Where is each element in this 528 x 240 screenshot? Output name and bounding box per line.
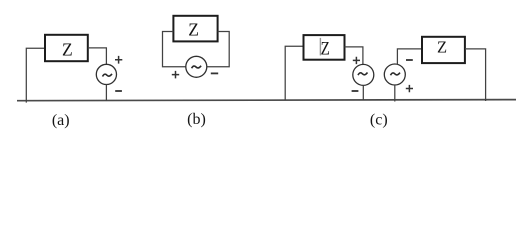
AC source 1 (c) <box>353 64 374 85</box>
sine symbol (c source 2) <box>391 73 401 76</box>
svg-text:(c): (c) <box>370 112 388 129</box>
wire: source 2 (c) to rail <box>394 85 396 102</box>
svg-text:(a): (a) <box>52 112 70 129</box>
minus sign (c source 1) <box>352 90 359 92</box>
svg-text:Z: Z <box>437 38 447 57</box>
minus sign (c source 2) <box>406 59 413 61</box>
wire: box Z (c right) to rail <box>465 49 486 101</box>
text cursor artifact (c left box) <box>319 38 321 56</box>
sine symbol (b) <box>192 66 202 69</box>
svg-text:(b): (b) <box>187 111 206 128</box>
plus sign (b) <box>172 71 179 79</box>
impedance box Z (c right) <box>422 37 465 63</box>
sine symbol (c source 1) <box>358 73 368 76</box>
impedance box Z (c left) <box>304 35 345 60</box>
wire: source (a) to rail <box>105 85 107 101</box>
plus sign (a) <box>115 56 122 64</box>
wire: box Z (a) to source <box>88 48 107 64</box>
AC source (a) <box>96 64 116 84</box>
wire: circuit (c) rail to left box Z <box>285 46 303 100</box>
AC source (b) <box>186 56 207 77</box>
impedance box Z (b) <box>173 16 217 42</box>
ground/common rail (bottom baseline) <box>17 100 516 101</box>
AC source 2 (c) <box>384 64 405 85</box>
impedance box Z (a) <box>45 35 88 61</box>
minus sign (b) <box>211 72 218 74</box>
sine symbol (a) <box>103 74 113 77</box>
wire: box Z (b) left to source <box>163 32 186 67</box>
wire: source 1 (c) to rail <box>362 85 364 100</box>
plus sign (c source 2) <box>406 85 413 92</box>
wire: box Z (c left) to source 1 <box>345 47 363 65</box>
svg-text:Z: Z <box>188 20 199 40</box>
wire: source 2 (c) to right box Z <box>397 49 422 64</box>
wire: box Z (b) right to source <box>207 32 229 67</box>
svg-text:Z: Z <box>321 38 330 59</box>
plus sign (c source 1) <box>353 57 360 64</box>
wire: circuit (a) left, rail to box Z <box>26 48 45 102</box>
minus sign (a) <box>115 90 122 92</box>
svg-text:Z: Z <box>62 39 73 59</box>
